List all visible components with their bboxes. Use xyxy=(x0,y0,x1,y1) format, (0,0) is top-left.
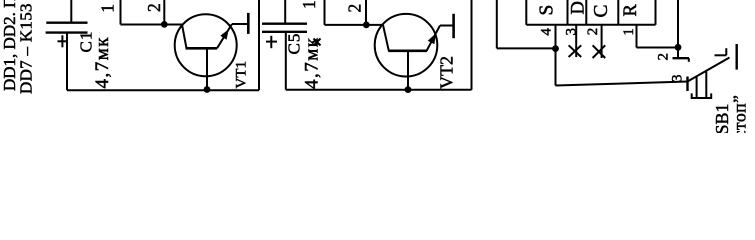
capacitor C5 top lead xyxy=(284,0,286,24)
riser wire block2 xyxy=(471,0,473,90)
svg-text:DD7 – K153: DD7 – K153 xyxy=(17,3,36,94)
transistor VT1 circle xyxy=(175,14,237,76)
chip riser wire xyxy=(496,0,498,48)
chip pin 4 lead xyxy=(555,25,557,86)
capacitor C1 plus sign xyxy=(58,35,68,47)
svg-text:VT1: VT1 xyxy=(234,61,250,89)
SB1 actuator bottom bar xyxy=(692,93,712,98)
transistor VT2 base lead xyxy=(407,51,409,90)
chip divider C/R xyxy=(617,0,619,25)
junction dot pin4 xyxy=(552,45,559,52)
junction node (block1 collector) xyxy=(161,21,168,28)
capacitor C1 plate 1 xyxy=(46,22,87,24)
transistor VT1 emitter arrow xyxy=(220,29,228,39)
transistor VT2 emitter arrow xyxy=(428,33,436,44)
svg-text:„стоп”: „стоп” xyxy=(730,95,750,133)
rail wire block1 xyxy=(67,89,259,91)
riser wire block1 xyxy=(258,0,260,90)
pin stub 1 (block1) xyxy=(120,0,122,25)
SB1 contact 2 bar hook xyxy=(688,58,690,62)
wire pin1 to SB1 node xyxy=(637,47,679,49)
transistor VT1 collector diagonal xyxy=(182,25,187,49)
SB1 terminal label 1 xyxy=(715,48,727,55)
junction dot base VT2 xyxy=(405,86,412,93)
SB1 feed wire xyxy=(677,0,679,48)
svg-text:3: 3 xyxy=(564,28,580,36)
svg-text:1: 1 xyxy=(98,4,118,13)
capacitor C5 plate 1 xyxy=(262,23,307,25)
capacitor C1 plate 2 xyxy=(46,31,88,33)
svg-text:VT2: VT2 xyxy=(437,56,457,89)
junction dot base VT1 xyxy=(204,86,211,93)
pin stub 2 (block1) xyxy=(163,0,165,25)
svg-text:2: 2 xyxy=(345,4,365,13)
emitter lead VT2 xyxy=(440,25,454,27)
chip DD box bottom edge xyxy=(526,24,655,26)
capacitor C5 plate 2 xyxy=(262,31,307,33)
SB1 actuator right line xyxy=(705,72,707,99)
SB1 actuator left line xyxy=(696,77,698,98)
svg-text:4,7мк: 4,7мк xyxy=(92,36,113,89)
svg-text:R: R xyxy=(621,4,641,17)
svg-text:4: 4 xyxy=(539,28,555,36)
chip DD box left edge xyxy=(525,0,527,25)
SB1 contact 2 bar xyxy=(673,57,690,59)
SB1 contact 1 bar xyxy=(736,44,738,70)
chip DD box right edge xyxy=(655,0,657,25)
transistor VT2 base bar xyxy=(388,49,427,52)
ground bar VT1 xyxy=(247,13,250,34)
chip divider S/D xyxy=(567,0,569,25)
svg-text:S: S xyxy=(537,5,558,16)
SB1 contact 2 lead xyxy=(677,48,679,59)
transistor VT1 base bar xyxy=(186,47,218,50)
svg-text:2: 2 xyxy=(585,28,601,36)
chip pin 3 lead xyxy=(575,25,577,57)
SB1 blade xyxy=(688,58,730,82)
transistor VT2 circle xyxy=(375,14,438,77)
X mark (block2) xyxy=(314,39,321,46)
SB1 pivot bar xyxy=(686,77,688,92)
chip pin 1 lead xyxy=(636,25,638,48)
X mark pin 2 xyxy=(593,45,606,58)
wire stub1 to collector (block2) xyxy=(325,24,384,26)
transistor VT2 collector diagonal xyxy=(383,25,389,51)
emitter lead VT1 xyxy=(232,23,248,25)
transistor VT1 emitter diagonal xyxy=(217,24,232,48)
svg-text:2: 2 xyxy=(144,3,164,12)
svg-text:D: D xyxy=(569,1,589,14)
svg-text:C: C xyxy=(591,4,612,17)
capacitor C5 bottom lead xyxy=(285,32,287,90)
wire riser to pin4 xyxy=(497,47,556,49)
svg-text:1: 1 xyxy=(621,28,637,36)
capacitor C1 top lead xyxy=(70,0,72,23)
transistor VT1 base lead xyxy=(206,48,208,90)
chip pin 2 lead xyxy=(601,25,603,58)
pin stub 1 (block2) xyxy=(324,0,326,25)
junction node (block2 collector) xyxy=(363,22,370,29)
capacitor C5 plus sign xyxy=(266,36,277,48)
svg-text:1: 1 xyxy=(299,0,319,9)
wire pin4 to SB1 xyxy=(556,82,689,86)
rail wire block2 xyxy=(286,89,472,91)
transistor VT2 emitter diagonal xyxy=(427,26,440,51)
svg-text:2: 2 xyxy=(656,53,672,61)
junction dot SB1 xyxy=(675,44,682,51)
pin stub 2 (block2) xyxy=(365,0,367,25)
X mark pin 3 xyxy=(569,45,582,57)
capacitor C1 bottom lead xyxy=(66,33,68,91)
chip divider D/C xyxy=(585,0,587,25)
ground bar VT2 xyxy=(452,14,455,38)
wire collector VT1 xyxy=(121,24,183,26)
